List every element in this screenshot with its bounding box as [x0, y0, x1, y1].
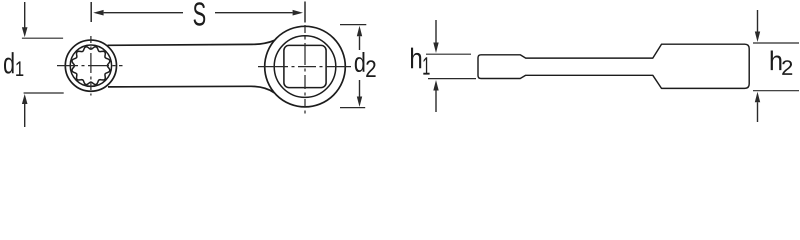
dimension h2 top extension line	[753, 42, 799, 44]
dimension h2 top arrow	[757, 10, 759, 32]
dimension d1 top extension line	[22, 37, 63, 39]
dimension h1 top arrow	[435, 20, 437, 43]
left ring 12-point profile	[72, 47, 110, 85]
left ring inner circle	[70, 45, 111, 86]
right ring vertical centerline	[304, 25, 306, 117]
left ring vertical centerline	[90, 36, 92, 96]
wrench outline (side view)	[478, 44, 749, 88]
dimension h1 bottom extension line	[428, 78, 476, 80]
dimension d1 top arrow	[24, 2, 26, 28]
dimension S left tick	[90, 2, 92, 22]
right ring horizontal centerline	[258, 66, 351, 68]
wrench shank (front view) top edge	[108, 40, 275, 45]
left ring horizontal centerline	[57, 65, 123, 67]
dimension h2 bottom arrow	[755, 92, 760, 103]
dimension d2 bottom extension line	[340, 107, 365, 109]
label d1	[4, 52, 14, 74]
wrench shank (front view) bottom edge	[108, 86, 275, 93]
dimension S right segment	[215, 12, 293, 14]
right ring inner circle	[274, 36, 336, 98]
technical drawing: box wrench adaptor, front view and side view	[0, 0, 800, 131]
square drive hole	[284, 45, 326, 87]
label d2	[355, 52, 365, 72]
dimension d1 bottom arrow	[22, 94, 28, 104]
dimension d2 bottom arrow (pointing down)	[359, 80, 361, 97]
right ring outer circle (d2)	[265, 26, 346, 107]
label h1	[411, 48, 421, 69]
dimension h1 top extension line	[426, 53, 471, 55]
dimension S left arrow	[93, 10, 103, 16]
dimension S right tick	[304, 2, 306, 23]
left ring outer circle (d1)	[65, 40, 116, 91]
dimension S right arrow	[293, 10, 303, 16]
label h2	[771, 51, 782, 71]
dimension d2 top arrow (pointing up)	[357, 26, 362, 36]
dimension h1 bottom arrow	[433, 80, 438, 91]
dimension h2 bottom extension line	[753, 90, 799, 92]
dimension d1 bottom extension line	[24, 92, 64, 94]
label S	[194, 2, 206, 25]
dimension d2 top extension line	[340, 24, 366, 26]
